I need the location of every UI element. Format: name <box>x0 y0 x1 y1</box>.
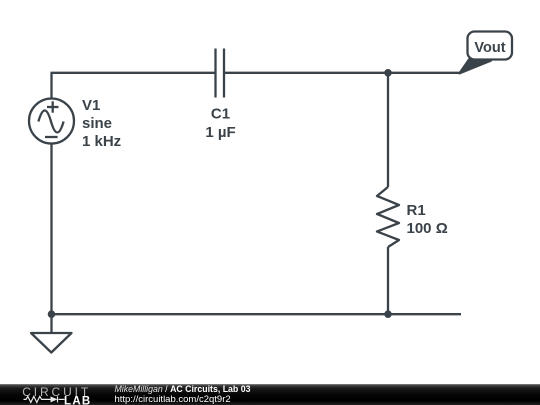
net flag Vout <box>460 32 513 74</box>
svg-text:http://circuitlab.com/c2qt9r2: http://circuitlab.com/c2qt9r2 <box>115 394 231 405</box>
junction dot bottom right node <box>384 310 392 318</box>
svg-text:100 Ω: 100 Ω <box>407 220 448 237</box>
wire junction to R1 top <box>387 73 389 187</box>
svg-text:MikeMilligan / AC Circuits, La: MikeMilligan / AC Circuits, Lab 03 <box>115 384 251 394</box>
svg-text:sine: sine <box>82 115 112 132</box>
wire ground stub <box>50 314 52 333</box>
junction dot bottom left node <box>48 310 56 318</box>
wire top horizontal to C1 left plate <box>51 72 216 74</box>
wire C1 right plate to junction <box>224 72 388 74</box>
voltage source V1 <box>29 99 74 144</box>
svg-text:V1: V1 <box>82 97 100 114</box>
svg-text:LAB: LAB <box>64 396 92 405</box>
svg-text:1 kHz: 1 kHz <box>82 133 121 150</box>
wire R1 bottom to bottom node <box>387 247 389 314</box>
resistor R1 <box>377 187 399 247</box>
wire junction to Vout tail <box>388 72 460 74</box>
ground <box>31 333 72 353</box>
svg-text:R1: R1 <box>407 202 426 219</box>
svg-text:1 µF: 1 µF <box>205 124 235 141</box>
svg-text:Vout: Vout <box>474 40 505 56</box>
wire V1 bottom vertical <box>50 144 52 315</box>
capacitor C1 <box>216 49 225 98</box>
wire V1 top vertical <box>50 73 52 99</box>
svg-text:C1: C1 <box>211 106 230 123</box>
wire bottom horizontal <box>52 313 462 315</box>
footer bar <box>0 384 540 405</box>
CircuitLab logo resistor-diode line <box>24 396 65 402</box>
junction dot top node <box>384 69 392 77</box>
